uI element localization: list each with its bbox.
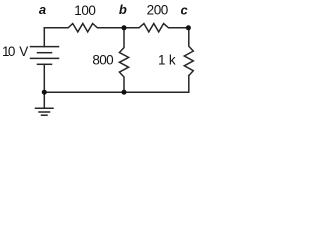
svg-text:10: 10 — [2, 44, 15, 59]
svg-text:1: 1 — [158, 53, 166, 68]
svg-text:a: a — [39, 2, 46, 17]
svg-text:800: 800 — [92, 53, 113, 68]
svg-text:V: V — [19, 44, 28, 59]
svg-text:100: 100 — [74, 3, 96, 18]
svg-text:b: b — [119, 2, 127, 17]
svg-text:k: k — [169, 53, 176, 68]
svg-text:200: 200 — [147, 3, 169, 18]
svg-text:c: c — [180, 2, 188, 17]
